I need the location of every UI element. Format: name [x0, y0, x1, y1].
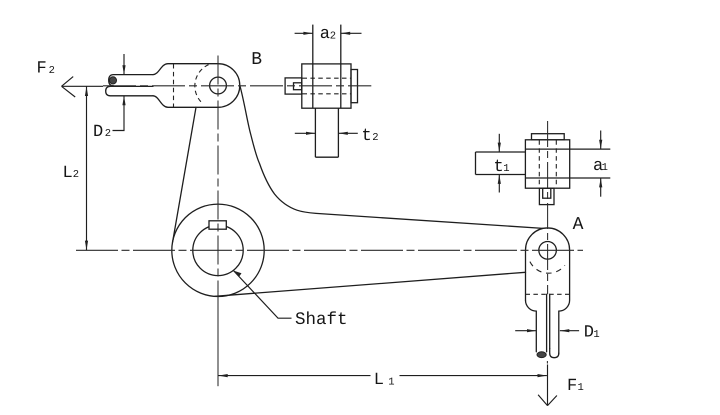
svg-text:t: t: [362, 127, 372, 146]
svg-text:1: 1: [593, 329, 599, 341]
svg-text:2: 2: [49, 65, 55, 77]
svg-text:F: F: [567, 377, 577, 396]
svg-text:2: 2: [73, 169, 79, 181]
svg-text:a: a: [320, 25, 330, 44]
svg-text:D: D: [93, 123, 103, 142]
svg-text:t: t: [494, 158, 504, 177]
svg-text:L: L: [374, 371, 384, 390]
svg-text:2: 2: [372, 132, 378, 144]
svg-text:B: B: [251, 50, 262, 70]
svg-text:1: 1: [602, 162, 608, 174]
svg-text:1: 1: [388, 376, 394, 388]
svg-text:2: 2: [105, 128, 111, 140]
svg-text:L: L: [63, 164, 73, 183]
svg-text:A: A: [573, 215, 584, 235]
svg-text:1: 1: [578, 382, 584, 394]
svg-text:1: 1: [503, 163, 509, 175]
svg-text:F: F: [37, 60, 47, 79]
svg-text:2: 2: [330, 30, 336, 42]
svg-text:Shaft: Shaft: [295, 310, 348, 330]
